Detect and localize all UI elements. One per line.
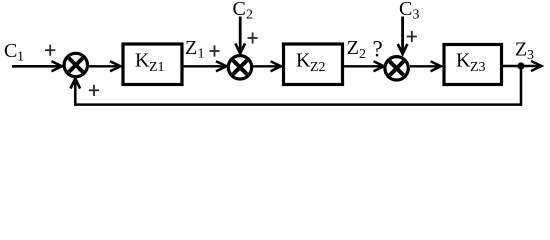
- svg-text:Z3: Z3: [470, 60, 486, 75]
- wire summer S3 to block KZ3: [410, 65, 441, 67]
- svg-text:Z: Z: [185, 37, 197, 59]
- svg-text:K: K: [456, 50, 471, 72]
- wire feedback: down from node, across bottom, up into summer S1: [75, 66, 521, 105]
- wire C2 arrow down into summer S2: [239, 17, 242, 53]
- svg-text:2: 2: [359, 47, 366, 62]
- svg-text:Z1: Z1: [149, 60, 165, 75]
- wire input arrow into summer S1: [12, 65, 62, 68]
- block KZ3: [444, 45, 502, 85]
- plus sign at feedback input: [89, 89, 99, 91]
- svg-text:K: K: [296, 50, 311, 72]
- svg-text:Z2: Z2: [310, 60, 326, 75]
- svg-text:Z: Z: [515, 38, 527, 60]
- node junction dot on output: [517, 62, 524, 69]
- svg-text:1: 1: [198, 47, 205, 62]
- wire summer S1 to block KZ1: [89, 65, 120, 67]
- wire summer S2 to block KZ2: [253, 65, 281, 67]
- wire block KZ1 to summer S2: [184, 65, 227, 67]
- plus sign after Z1: [209, 50, 219, 52]
- plus sign at C1 input: [45, 49, 55, 51]
- plus sign at C2 input: [248, 37, 258, 39]
- wire output Z3 arrow: [503, 65, 541, 67]
- svg-text:3: 3: [527, 48, 534, 63]
- wire block KZ2 to summer S3: [344, 65, 384, 67]
- svg-text:3: 3: [413, 8, 420, 23]
- summing junction S2: [228, 56, 251, 79]
- svg-text:2: 2: [246, 8, 253, 23]
- block KZ2: [284, 44, 343, 85]
- plus sign at C3 input: [407, 36, 417, 38]
- svg-text:Z: Z: [347, 37, 359, 59]
- svg-text:1: 1: [17, 50, 24, 65]
- summing junction S1: [64, 53, 87, 76]
- block KZ1: [123, 44, 182, 85]
- svg-text:K: K: [135, 50, 150, 72]
- svg-text:C: C: [399, 0, 412, 20]
- svg-text:C: C: [4, 40, 17, 62]
- svg-text:?: ?: [372, 37, 382, 62]
- summing junction S3: [385, 57, 408, 80]
- wire C3 arrow down into summer S3: [401, 17, 404, 54]
